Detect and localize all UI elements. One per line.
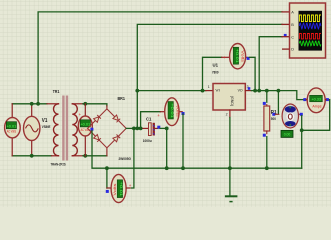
U1 pin 1 stub bbox=[206, 90, 213, 92]
svg-text:VSINE: VSINE bbox=[42, 125, 51, 129]
voltmeter VM3 (DC Volts across C1, rotated) bbox=[141, 98, 183, 129]
wire bbox=[11, 104, 13, 118]
wire VM4 left bbox=[203, 57, 222, 90]
wire ground to VM5 left bbox=[106, 168, 108, 188]
ground symbol bbox=[225, 196, 238, 201]
transformer primary top pin bbox=[47, 103, 59, 105]
wire bbox=[53, 104, 58, 156]
C1 right terminal marker bbox=[157, 126, 160, 129]
wire DC+ to U1 VI bbox=[137, 90, 206, 92]
svg-text:2: 2 bbox=[226, 113, 228, 117]
svg-text:+0.01: +0.01 bbox=[119, 182, 124, 198]
wire VO to fan bbox=[277, 91, 279, 114]
wire to oscilloscope channel C bbox=[259, 37, 282, 91]
wire VO to R1 bbox=[266, 91, 268, 103]
svg-text:500: 500 bbox=[271, 117, 276, 121]
bridge minus terminal marker bbox=[90, 128, 93, 131]
svg-text:D: D bbox=[291, 48, 294, 52]
voltmeter VM1 (AC Volts across V1) bbox=[5, 104, 21, 156]
wire VM3 right to ground rail bbox=[182, 114, 184, 168]
fan left terminal marker bbox=[272, 113, 275, 116]
oscilloscope pin C stub bbox=[282, 36, 290, 38]
svg-text:V1: V1 bbox=[42, 118, 48, 124]
svg-text:B: B bbox=[291, 23, 294, 27]
wire bbox=[84, 104, 86, 116]
wire down to ground rail bbox=[301, 130, 303, 168]
AC source V1 (VSINE) bbox=[24, 104, 40, 156]
fan right terminal marker bbox=[300, 113, 303, 116]
wire to oscilloscope channel A bbox=[38, 12, 282, 104]
bridge bottom pin stub bbox=[106, 148, 108, 156]
R1 top pin bbox=[266, 105, 268, 106]
svg-text:+: + bbox=[129, 183, 132, 188]
node C1 ground junction bbox=[165, 166, 169, 170]
svg-text:Amps: Amps bbox=[312, 104, 321, 108]
capacitor C1 1000u electrolytic bbox=[149, 123, 155, 136]
node V1 top junction bbox=[30, 102, 34, 106]
wire VM5 right to DC+ line bbox=[132, 128, 134, 188]
wire bbox=[31, 140, 33, 156]
VM4 right terminal marker bbox=[247, 57, 250, 60]
oscilloscope pin B stub bbox=[282, 23, 290, 25]
node scope-B junction on DC+ line bbox=[135, 126, 139, 130]
svg-text:TRAN-2P2S: TRAN-2P2S bbox=[51, 162, 67, 166]
svg-text:+: + bbox=[79, 112, 82, 117]
VM3 right terminal marker bbox=[182, 112, 185, 115]
ammeter right pin bbox=[325, 99, 326, 101]
transformer primary bottom pin bbox=[52, 155, 59, 157]
node VI rail junction bbox=[135, 89, 139, 93]
wire secondary bottom to bridge bbox=[83, 155, 107, 157]
node VM3 junction on DC+ line bbox=[139, 126, 143, 130]
node fan junction bbox=[277, 89, 281, 93]
svg-text:2W005G: 2W005G bbox=[119, 157, 132, 161]
svg-text:+: + bbox=[157, 113, 160, 118]
wire bbox=[222, 56, 230, 58]
ammeter left terminal marker bbox=[303, 98, 306, 101]
wire bbox=[84, 136, 86, 156]
node VM3 ground junction bbox=[181, 166, 185, 170]
wire to oscilloscope channel B bbox=[137, 24, 282, 128]
wire secondary top to bridge bbox=[83, 104, 107, 106]
capacitor C1 left pin bbox=[142, 127, 149, 129]
svg-text:BR1: BR1 bbox=[118, 96, 126, 101]
oscilloscope pin A stub bbox=[282, 11, 290, 13]
svg-text:U1: U1 bbox=[213, 62, 219, 68]
node VM2 top junction bbox=[83, 102, 87, 106]
svg-text:AC Volts: AC Volts bbox=[7, 130, 17, 134]
node V1 bottom junction bbox=[30, 154, 34, 158]
scope C marker bbox=[284, 34, 287, 37]
wire bridge plus output bbox=[126, 127, 142, 129]
node scope-A junction bbox=[36, 102, 40, 106]
wire C1 to ground rail bbox=[160, 128, 167, 168]
svg-text:VO: VO bbox=[238, 88, 243, 93]
svg-text:(GND): (GND) bbox=[230, 96, 234, 106]
svg-text:+0.01: +0.01 bbox=[6, 123, 16, 128]
wire bbox=[179, 111, 182, 113]
svg-text:+0.33: +0.33 bbox=[311, 98, 321, 102]
svg-text:TR1: TR1 bbox=[53, 89, 60, 94]
R1 top marker bbox=[263, 102, 266, 105]
svg-text:+0.01: +0.01 bbox=[80, 122, 90, 127]
wire VM4 right to VO rail bbox=[249, 57, 255, 90]
fan display bbox=[281, 130, 293, 137]
svg-text:1: 1 bbox=[208, 85, 210, 89]
VM5 left marker bbox=[106, 190, 109, 193]
node VM4 junction bbox=[132, 126, 136, 130]
wire R1 to ground rail bbox=[266, 137, 268, 169]
svg-text:Volts: Volts bbox=[112, 184, 117, 196]
voltmeter VM2 (AC Volts across secondary) bbox=[78, 104, 92, 156]
svg-text:+0.01: +0.01 bbox=[235, 49, 240, 64]
voltmeter VM4 (DC Volts across regulator, rotated) bbox=[203, 44, 248, 91]
wire bbox=[72, 104, 77, 156]
node VM-top left junction bbox=[201, 89, 205, 93]
svg-text:Volts: Volts bbox=[240, 50, 245, 62]
wire U1 GND down bbox=[229, 118, 231, 196]
wire VM3 left bbox=[141, 112, 161, 129]
U1 pin 3 stub bbox=[245, 90, 251, 92]
wire fan right down bbox=[301, 116, 303, 131]
svg-text:C: C bbox=[291, 35, 294, 39]
node fan-ammeter junction bbox=[300, 128, 304, 132]
capacitor C1 right pin bbox=[155, 127, 158, 129]
wire ground rail bbox=[107, 167, 302, 169]
VM5 left pin bbox=[107, 187, 111, 189]
wire bridge minus to ground rail bbox=[92, 131, 107, 168]
bridge rectifier BR1 2W005G bbox=[88, 109, 127, 148]
U1 pin3 marker bbox=[248, 87, 251, 90]
wire bbox=[160, 111, 165, 113]
svg-text:A: A bbox=[291, 11, 294, 15]
VM5 right pin bbox=[126, 187, 130, 189]
R1 bottom pin bbox=[266, 131, 268, 134]
transformer TR1 TRAN-2P2S bbox=[53, 96, 77, 161]
fan left pin bbox=[275, 113, 279, 115]
wire ammeter return bbox=[302, 100, 330, 131]
ammeter right terminal marker bbox=[326, 98, 329, 101]
node U1 ground junction bbox=[228, 166, 232, 170]
wire bbox=[31, 104, 33, 117]
node VM-top right junction bbox=[253, 89, 257, 93]
R1 bottom marker bbox=[263, 134, 266, 137]
wire top-left rail bbox=[12, 103, 47, 105]
bridge top pin stub bbox=[106, 106, 108, 109]
ammeter left pin bbox=[306, 99, 307, 101]
voltage regulator U1 7809 bbox=[208, 84, 249, 117]
svg-text:VI: VI bbox=[215, 88, 219, 93]
transformer secondary top pin bbox=[72, 103, 83, 105]
transformer secondary bottom pin bbox=[72, 155, 83, 157]
svg-text:1000u: 1000u bbox=[143, 139, 152, 143]
wire bbox=[11, 138, 13, 156]
node C1 corner bbox=[165, 126, 169, 130]
node R1 ground junction bbox=[265, 166, 269, 170]
svg-text:+: + bbox=[223, 55, 226, 60]
wire VO rail bbox=[251, 91, 303, 100]
node ground rail left junction bbox=[105, 166, 109, 170]
svg-text:7809: 7809 bbox=[212, 71, 219, 75]
U1 pin 2 stub bbox=[229, 110, 231, 118]
svg-text:Volts: Volts bbox=[175, 105, 180, 117]
svg-text:0.00: 0.00 bbox=[284, 133, 291, 137]
wire bottom-left rail bbox=[12, 155, 51, 157]
fan right pin bbox=[299, 113, 301, 115]
node scope-C junction bbox=[257, 89, 261, 93]
svg-text:C1: C1 bbox=[146, 116, 152, 121]
node VM2 bottom junction bbox=[83, 154, 87, 158]
wire bbox=[246, 56, 248, 58]
svg-text:+0.01: +0.01 bbox=[170, 103, 175, 119]
oscilloscope bbox=[282, 3, 326, 58]
node R1 top junction bbox=[265, 89, 269, 93]
